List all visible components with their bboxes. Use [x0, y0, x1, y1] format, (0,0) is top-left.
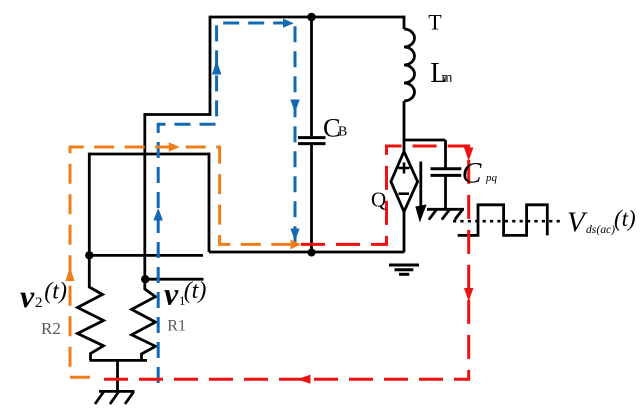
wire source bottom lead	[403, 212, 406, 253]
red arrow down (top right)	[464, 148, 473, 162]
blue arrow down (right lower)	[290, 229, 299, 242]
red loop	[100, 146, 469, 379]
wire resistor bottom join	[90, 359, 148, 362]
wire CB top lead	[310, 17, 313, 136]
svg-text:pq: pq	[485, 172, 498, 184]
wire bottom bus	[209, 251, 404, 254]
svg-text:T: T	[428, 10, 442, 35]
svg-text:R2: R2	[41, 319, 61, 338]
blue arrow up (left upper)	[212, 61, 221, 75]
wire stub node B (v1 tap)	[145, 278, 203, 281]
node dot bus	[308, 249, 316, 257]
svg-text:2: 2	[35, 295, 43, 311]
blue arrow up (left lower)	[153, 208, 163, 221]
resistor R1	[132, 279, 156, 360]
blue arrow right (top)	[283, 19, 294, 28]
wire R1 feed vertical	[143, 113, 146, 280]
wire stub node A	[89, 254, 203, 257]
blue arrow down (right upper)	[290, 100, 299, 113]
svg-text:ds: ds	[586, 224, 597, 236]
node B dot	[141, 275, 149, 283]
svg-text:Q: Q	[371, 187, 386, 211]
svg-text:v: v	[164, 276, 179, 312]
orange arrow up (left)	[65, 268, 74, 282]
wire coil bottom lead	[403, 101, 406, 152]
node dot top	[307, 13, 316, 22]
node A dot	[85, 251, 93, 259]
current arrow iQ shaft	[419, 162, 422, 211]
wire top right corner to coil	[403, 16, 406, 29]
wire CB bottom lead	[310, 145, 313, 253]
svg-text:(t): (t)	[184, 278, 207, 304]
square wave Vds	[458, 205, 548, 236]
ground (earth, under source)	[389, 264, 419, 267]
wire box left vertical	[88, 153, 91, 256]
wire Cpq bottom lead	[444, 175, 447, 209]
wire box top	[89, 153, 209, 156]
svg-text:B: B	[338, 124, 347, 139]
ground (chassis, bottom-left)	[99, 390, 135, 393]
svg-text:(t): (t)	[614, 206, 636, 231]
blue flux loop	[158, 23, 295, 383]
orange arrow right (bottom)	[291, 240, 302, 249]
wire ground stem	[116, 360, 119, 391]
ground (chassis, at Cpq)	[427, 208, 464, 211]
plus sign of source Q	[399, 163, 410, 174]
svg-text:C: C	[462, 158, 482, 190]
dependent source Q (diamond)	[391, 152, 418, 212]
svg-text:(ac): (ac)	[597, 224, 616, 236]
dotted zero axis	[453, 220, 561, 223]
minus sign of source Q	[399, 192, 410, 195]
wire top horizontal	[210, 16, 404, 19]
wire branch to Cpq	[404, 139, 446, 142]
current arrow iQ head	[415, 205, 426, 223]
red arrow down (right)	[464, 288, 473, 302]
wire left step vertical	[209, 16, 212, 115]
wire Cpq top lead	[444, 140, 447, 168]
orange arrow right (top)	[169, 142, 180, 151]
svg-text:R1: R1	[167, 317, 186, 334]
inductor Lm (transformer T)	[404, 29, 415, 101]
red arrow left (bottom)	[297, 375, 311, 384]
capacitor Cpq	[431, 167, 462, 170]
resistor R2	[78, 255, 104, 360]
wire box right vertical	[208, 153, 211, 252]
svg-text:m: m	[442, 71, 453, 86]
svg-text:(t): (t)	[44, 278, 67, 304]
orange loop	[70, 147, 301, 377]
wire step horizontal	[145, 113, 212, 116]
svg-text:v: v	[20, 278, 35, 314]
capacitor CB	[298, 136, 326, 139]
